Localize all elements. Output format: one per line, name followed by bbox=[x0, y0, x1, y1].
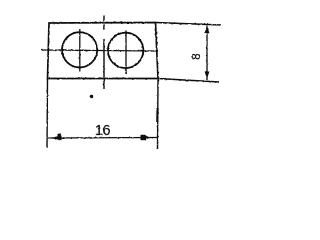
pen hook on left arrowhead bbox=[58, 134, 61, 137]
extension line bottom (for dimension 8) bbox=[158, 79, 219, 83]
svg-text:8: 8 bbox=[191, 53, 203, 59]
arrowhead top of dimension 8 bbox=[205, 26, 210, 34]
vertical centerline hole 2 bbox=[125, 30, 127, 74]
arrowhead right of dimension 16 bbox=[141, 135, 153, 140]
arrowhead bottom of dimension 8 bbox=[205, 72, 210, 80]
extension line left (for dimension 16) bbox=[46, 79, 49, 149]
dimension line 16 (horizontal) bbox=[48, 137, 158, 140]
extension line right (for dimension 16) bbox=[157, 79, 160, 150]
horizontal centerline through both holes bbox=[41, 50, 158, 51]
svg-text:16: 16 bbox=[95, 123, 111, 139]
dimension line 8 (vertical) bbox=[206, 26, 208, 81]
arrowhead left of dimension 16 bbox=[50, 136, 62, 141]
ink speck below plate bbox=[90, 95, 93, 98]
ink thickening on right extension line bbox=[156, 108, 159, 122]
ink blob on right arrowhead bbox=[141, 135, 147, 140]
hole circle 2 bbox=[108, 33, 143, 68]
hole circle 1 bbox=[62, 32, 97, 67]
middle vertical centerline (dash segments at top) bbox=[103, 16, 105, 22]
plate outline (rectangle, slightly skewed scan) bbox=[48, 23, 159, 79]
extension line top (for dimension 8) bbox=[156, 23, 222, 26]
vertical centerline hole 1 bbox=[79, 29, 81, 72]
